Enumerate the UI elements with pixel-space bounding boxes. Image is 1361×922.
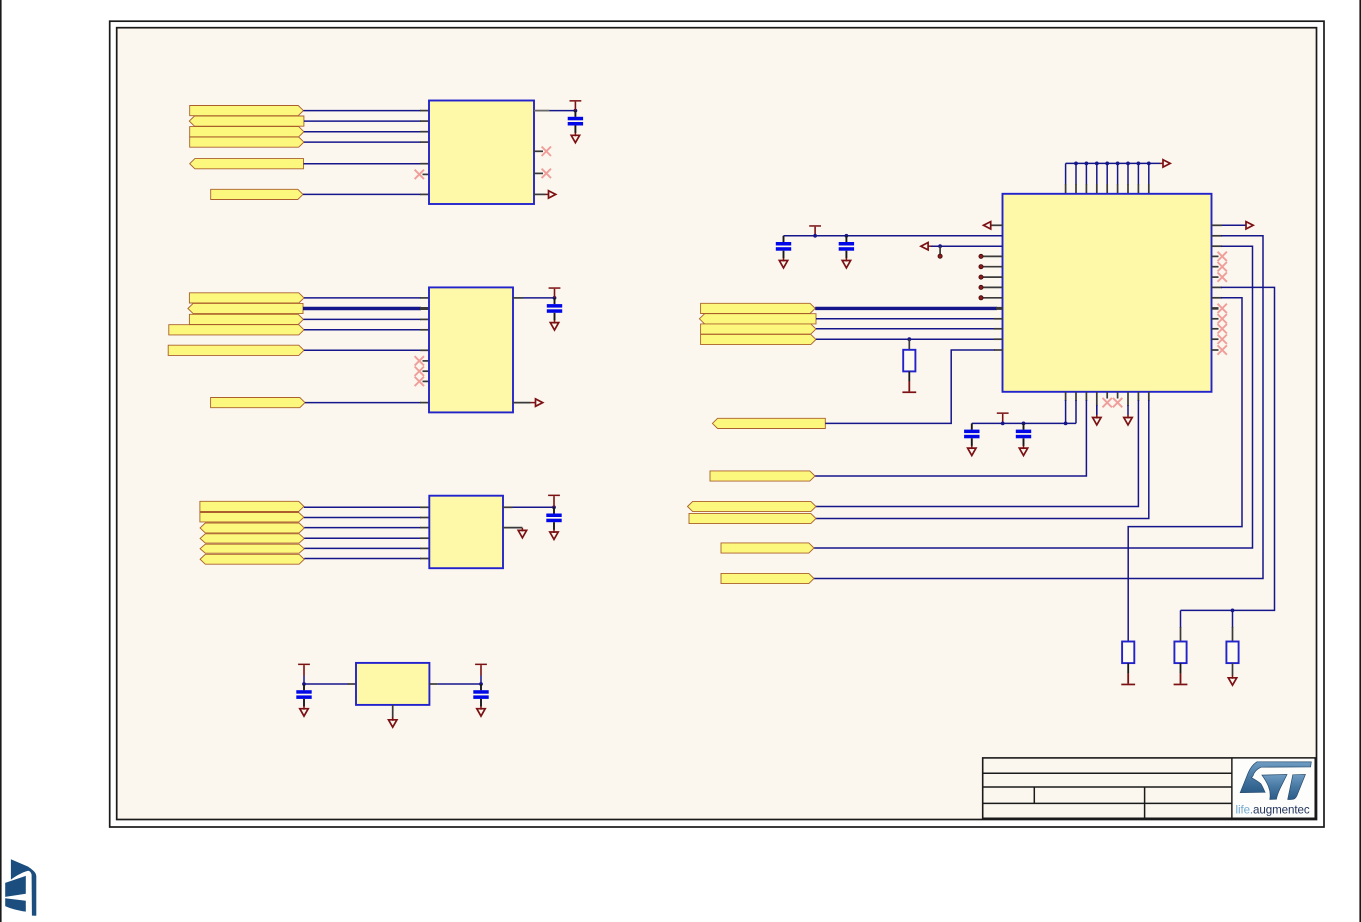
wire U5 right pin3 to P27: [814, 246, 1253, 548]
junction top bus 9: [1147, 162, 1151, 166]
title block column line logo cell: [1231, 758, 1233, 818]
resistor R6: [1174, 642, 1186, 664]
junction at R4: [907, 337, 911, 341]
junction at C5: [479, 682, 483, 686]
pin stub U4 out: [429, 683, 437, 685]
pin stub U3-4: [420, 537, 429, 539]
port flag P20: [699, 314, 816, 324]
power port PWR2: [549, 287, 561, 289]
pin stub U2-1: [420, 297, 429, 299]
pin stub U5 bottom 2: [1075, 392, 1077, 401]
pin stub U1-2: [420, 120, 429, 122]
unconnected pin U5 left 4: [982, 255, 1003, 257]
port flag P22: [701, 334, 816, 344]
junction bottom pin1: [1064, 422, 1068, 426]
power port PWR10 below R6: [1180, 663, 1182, 673]
sheet outer frame: [110, 21, 1324, 827]
pin stub U5 left 13: [994, 349, 1003, 351]
wire P23 to U5 pin13: [825, 350, 995, 423]
capacitor C6: [783, 236, 785, 242]
bus wire P8 to U2: [303, 307, 421, 310]
port flag P14: [200, 513, 304, 522]
pin stub U5 left 12: [994, 338, 1003, 340]
sheet inner frame: [117, 28, 1317, 820]
pin stub U3 VCC out: [503, 506, 513, 508]
wire P9 to U2: [303, 318, 421, 320]
port flag P25: [688, 501, 817, 511]
power port PWR3: [548, 495, 560, 497]
wire P14 to U3: [304, 517, 421, 519]
capacitor C5: [480, 684, 482, 690]
junction top bus 5: [1105, 162, 1109, 166]
junction bypass PWR8: [1001, 422, 1005, 426]
junction top bus 2: [1074, 162, 1078, 166]
pin stub U5 left 9: [996, 307, 1003, 310]
bus wire U5 top: [1066, 162, 1160, 164]
ground below R7: [1232, 663, 1234, 675]
pin stub U2-5: [420, 349, 429, 351]
output port pin U2: [513, 402, 531, 404]
pin stub U5 right 7: [1212, 286, 1223, 288]
pin stub U3-5: [420, 547, 429, 549]
pin stub U3-6: [420, 558, 429, 560]
wire U1 to C1: [550, 110, 576, 112]
port flag P5: [190, 159, 304, 169]
port flag P11: [168, 345, 304, 355]
wire U5 right pin8 to R5: [1128, 298, 1242, 642]
power port PWR8: [997, 412, 1009, 414]
no-connect pin U2 left 2: [423, 370, 430, 372]
pin stub U2 VCC out: [513, 297, 523, 299]
port flag P2: [189, 116, 304, 126]
pin stub U3-1: [420, 506, 429, 508]
wire U5 bottom pin2: [1075, 400, 1077, 423]
wire U5 bottom pin1: [1065, 400, 1067, 423]
wire P6 to U1: [303, 193, 421, 195]
pin stub U1-1: [420, 110, 429, 112]
unconnected pin U5 left 8: [982, 297, 1003, 299]
no-connect pin U5 right 4: [1212, 255, 1219, 257]
ST logo: [1240, 762, 1311, 800]
capacitor C8: [971, 423, 973, 429]
port flag P16: [200, 534, 304, 543]
port flag P23: [712, 418, 825, 428]
power port PWR4: [298, 664, 310, 666]
no-connect pin U1 left: [423, 173, 430, 175]
port flag P10: [169, 325, 304, 335]
port flag P15: [200, 523, 304, 533]
power port PWR6: [809, 225, 821, 227]
bus wire P19 to U5: [815, 307, 997, 310]
ground pin U5 bottom 7: [1127, 392, 1129, 406]
corner ST logo mark: [5, 859, 36, 916]
wire U5 right pin7 to R6 R7: [1181, 287, 1275, 610]
junction top bus 3: [1085, 162, 1089, 166]
junction above R7: [1231, 609, 1235, 613]
wire U4 to C5: [438, 683, 481, 685]
junction at C7: [845, 234, 849, 238]
wire U5 top pin 1: [1065, 163, 1067, 184]
port flag P1: [190, 106, 304, 116]
no-connect pin U2 left 1: [423, 360, 430, 362]
pin stub U5 top 6: [1117, 184, 1119, 194]
capacitor C2: [554, 298, 556, 304]
capacitor C4: [303, 684, 305, 690]
resistor R4 lead: [908, 339, 910, 350]
capacitor C9: [1023, 423, 1025, 429]
wire C4 to U4: [304, 683, 349, 685]
junction top bus 8: [1137, 162, 1141, 166]
IC U5: [1003, 194, 1212, 392]
wire P15 to U3: [304, 527, 421, 529]
pin stub U5 top 9: [1148, 184, 1150, 194]
wire U5 top pin 5: [1106, 163, 1108, 184]
wire P3 to U1: [304, 131, 421, 133]
wire P20 to U5: [816, 318, 995, 320]
pin stub U2-3: [420, 318, 429, 320]
IC U1: [429, 101, 534, 205]
no-connect pin U5 bottom 5: [1106, 392, 1108, 399]
junction at C2: [553, 296, 557, 300]
pin stub U5 top 1: [1065, 184, 1067, 194]
pin stub U5 right 3: [1212, 245, 1223, 247]
no-connect pin U5 right 12: [1212, 338, 1219, 340]
port flag P28: [721, 573, 814, 583]
resistor R6 lead: [1180, 627, 1182, 642]
title block column line a: [1033, 787, 1035, 803]
pin stub U5 top 7: [1127, 184, 1129, 194]
junction at C9: [1022, 422, 1026, 426]
port flag P4: [190, 137, 304, 147]
pin stub U2-4: [420, 329, 429, 331]
wire P21 to U5: [816, 328, 995, 330]
input port arrow U5 left pin1: [991, 224, 1003, 226]
title block outline: [983, 758, 1315, 818]
no-connect pin U5 right 9: [1212, 307, 1219, 310]
pin stub U2-2: [420, 307, 429, 310]
regulator U4: [356, 663, 429, 705]
wire U5 bottom pin9 to P26: [816, 400, 1149, 519]
pin stub U3-3: [420, 527, 429, 529]
ground pin U5 bottom 4: [1096, 392, 1098, 406]
wire bottom bypass net: [972, 422, 1076, 424]
pin stub U1-5: [420, 163, 429, 165]
wire R6 top lead: [1180, 610, 1182, 628]
wire P11 to U2: [304, 349, 421, 351]
port flag P18: [200, 554, 304, 564]
pin stub U2-6: [420, 402, 429, 404]
power port PWR7 below R4: [908, 371, 910, 381]
svg-text:life.augmentec: life.augmentec: [1236, 804, 1310, 817]
wire P1 to U1: [303, 110, 421, 112]
capacitor C7: [845, 236, 847, 242]
title block row line 2: [983, 786, 1232, 788]
no-connect pin U5 right 10: [1212, 318, 1219, 320]
wire U5 bypass net: [784, 235, 1003, 237]
capacitor C3: [553, 507, 555, 513]
pin stub U5 left 10: [994, 318, 1003, 320]
junction top bus 7: [1126, 162, 1130, 166]
unconnected pin U5 left 7: [982, 286, 1003, 288]
power port PWR5: [475, 664, 487, 666]
wire U2 to C2: [523, 297, 555, 299]
wire P17 to U3: [304, 547, 421, 549]
junction bypass at PWR6: [813, 234, 817, 238]
port flag P27: [721, 543, 814, 553]
pin stub U1-6: [420, 193, 429, 195]
wire P13 to U3: [304, 506, 421, 508]
resistor R5: [1122, 642, 1134, 664]
junction top bus 6: [1116, 162, 1120, 166]
pin stub U5 right 8: [1212, 297, 1223, 299]
title block row line 1: [983, 772, 1232, 774]
pin stub U5 top 8: [1137, 184, 1139, 194]
junction at C4: [302, 682, 306, 686]
pin stub U5 top 3: [1085, 184, 1087, 194]
port flag P7: [189, 293, 304, 303]
title block column line b: [1144, 787, 1146, 818]
title block row line 3: [983, 802, 1145, 804]
wire P10 to U2: [304, 329, 421, 331]
wire U5 bottom pin8 to P25: [816, 400, 1138, 507]
power port PWR1: [570, 100, 582, 102]
unconnected pin U5 left 6: [982, 276, 1003, 278]
wire U3 to C3: [513, 506, 555, 508]
pin stub U1-4: [420, 141, 429, 143]
power port PWR9 below R5: [1127, 663, 1129, 673]
wire U5 top pin 7: [1127, 163, 1129, 184]
wire U5 pin3: [931, 245, 1003, 247]
no-connect pin U5 right 5: [1212, 266, 1219, 268]
IC U2: [429, 287, 513, 412]
wire P7 to U2: [304, 297, 421, 299]
page border right: [1359, 0, 1361, 922]
wire P5 to U1: [304, 163, 422, 165]
ground pin U4: [392, 705, 394, 719]
junction top bus 4: [1095, 162, 1099, 166]
wire U5 top pin 4: [1096, 163, 1098, 184]
output port arrow top bus: [1160, 162, 1163, 164]
junction at C3: [552, 505, 556, 509]
pin stub U4 in: [348, 683, 356, 685]
port flag P8: [188, 303, 303, 313]
no-connect pin U5 right 11: [1212, 328, 1219, 330]
port flag P9: [189, 314, 303, 324]
pin stub U5 left 11: [994, 328, 1003, 330]
IC U3: [429, 496, 503, 569]
port flag P26: [689, 513, 816, 523]
port flag P21: [701, 324, 816, 334]
page border left: [0, 0, 2, 922]
port flag P24: [710, 471, 815, 481]
logo cell background: [1233, 759, 1315, 818]
wire P4 to U1: [304, 141, 421, 143]
test point stub pin3: [939, 246, 941, 254]
pin stub U3-2: [420, 517, 429, 519]
pin stub U5 right 2: [1212, 235, 1223, 237]
wire U5 right pin2 to P28: [814, 236, 1263, 579]
capacitor C1: [574, 111, 576, 117]
wire P2 to U1: [304, 120, 421, 122]
input port arrow U5 left pin3: [921, 243, 928, 250]
ground pin U3: [503, 527, 522, 529]
pin stub U5 top 2: [1075, 184, 1077, 194]
pin stub U5 top 4: [1096, 184, 1098, 194]
pin stub U5 top 5: [1106, 184, 1108, 194]
wire U5 bottom pin3 to P24: [815, 400, 1086, 476]
no-connect pin U2 left 3: [423, 380, 430, 382]
wire P22 to U5: [816, 338, 995, 340]
port flag P17: [200, 544, 304, 553]
resistor R7: [1226, 642, 1238, 664]
junction at C1: [574, 109, 578, 113]
wire R7 top lead: [1232, 610, 1234, 628]
port flag P13: [200, 501, 304, 511]
unconnected pin U5 left 5: [982, 266, 1003, 268]
wire U5 top pin 3: [1085, 163, 1087, 184]
port flag P12: [211, 398, 305, 408]
output port arrow U5 right pin1: [1212, 224, 1223, 226]
pin stub U5 bottom 1: [1065, 392, 1067, 401]
no-connect pin U1 right 1: [534, 150, 543, 152]
wire P16 to U3: [304, 537, 421, 539]
resistor R7 lead: [1232, 627, 1234, 642]
wire U5 top pin 9: [1148, 163, 1150, 184]
resistor R4: [903, 350, 915, 372]
pin stub U5 bottom 8: [1137, 392, 1139, 401]
pin stub U5 bottom 3: [1085, 392, 1087, 401]
junction U5 pin3: [938, 244, 942, 248]
pin stub U5 bottom 9: [1148, 392, 1150, 401]
port flag P19: [701, 303, 816, 313]
no-connect pin U5 right 13: [1212, 349, 1219, 351]
wire U5 top pin 2: [1075, 163, 1077, 184]
wire P18 to U3: [304, 558, 421, 560]
no-connect pin U5 bottom 6: [1117, 392, 1119, 399]
wire P12 to U2: [305, 402, 421, 404]
output port pin U1: [534, 193, 546, 195]
pin stub U1-3: [420, 131, 429, 133]
wire U5 top pin 8: [1137, 163, 1139, 184]
no-connect pin U1 right 2: [534, 172, 543, 174]
port flag P6: [211, 189, 303, 199]
port flag P3: [190, 127, 304, 137]
no-connect pin U5 right 6: [1212, 276, 1219, 278]
pin stub U1 VCC out: [534, 110, 550, 112]
wire U5 top pin 6: [1117, 163, 1119, 184]
